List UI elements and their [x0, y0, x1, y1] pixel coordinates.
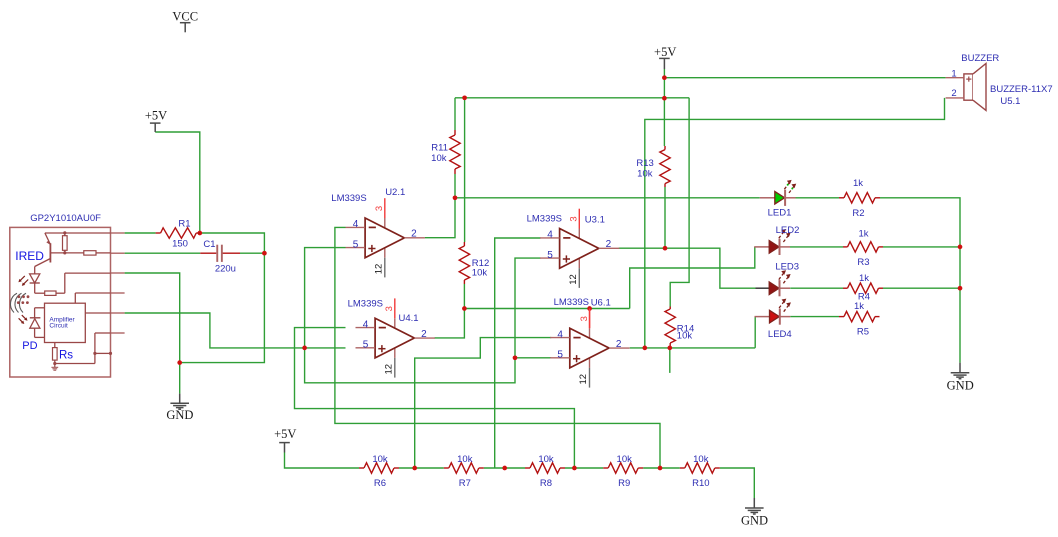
sensor internal: Rs local ground — [54, 364, 56, 368]
resistor R9 10k — [608, 463, 638, 473]
svg-text:10k: 10k — [472, 267, 488, 278]
svg-text:5: 5 — [353, 239, 359, 250]
svg-text:R6: R6 — [374, 478, 386, 489]
svg-text:1k: 1k — [858, 229, 868, 240]
svg-text:GND: GND — [947, 379, 974, 393]
wire LED1 to R2 — [795, 197, 839, 199]
resistor R11 10k — [450, 135, 460, 169]
svg-text:PD: PD — [22, 340, 37, 352]
svg-text:4: 4 — [547, 230, 553, 241]
sensor internal: top wire + emitter node — [45, 232, 111, 234]
resistor R10 10k — [685, 463, 715, 473]
svg-text:LM339S: LM339S — [348, 299, 383, 310]
resistor R1 150 — [161, 228, 197, 238]
op-amp U3.1 (LM339S comparator) — [540, 229, 619, 269]
svg-text:4: 4 — [353, 219, 359, 230]
svg-text:Circuit: Circuit — [49, 322, 68, 329]
wire R12 bottom to node — [463, 284, 465, 309]
power symbol +5V (bottom) — [279, 442, 290, 444]
wire C1 node down to gnd node — [180, 253, 265, 362]
svg-text:12: 12 — [383, 364, 394, 375]
wire sensor pin1 to R1 — [125, 232, 156, 234]
sensor internal: pin5 wire from amplifier — [85, 312, 110, 314]
wire sensor pin3 to GND — [125, 273, 180, 394]
svg-text:3: 3 — [579, 316, 590, 321]
svg-text:10k: 10k — [693, 454, 709, 465]
svg-text:LED1: LED1 — [768, 208, 792, 219]
sensor internal: base wire + resistor to pin2 — [50, 252, 83, 254]
wire R1 to C1 top node — [200, 233, 265, 253]
svg-text:R2: R2 — [852, 208, 864, 219]
sensor internal: Rs resistor — [54, 343, 56, 348]
svg-text:3: 3 — [374, 206, 385, 211]
svg-text:VCC: VCC — [172, 9, 198, 23]
wire sensor pin2 to C1 — [125, 252, 201, 254]
svg-text:1k: 1k — [853, 178, 863, 189]
buzzer pin 2 stub — [946, 97, 964, 99]
wire U3.1 output to R13 node — [619, 247, 665, 249]
sensor internal: pin4 wire to amplifier — [75, 292, 110, 294]
wire R10 to GND — [720, 468, 755, 498]
sensor internal: transistor — [49, 243, 51, 262]
pin 12 stub of U2.1 — [384, 258, 386, 278]
svg-text:LED2: LED2 — [776, 225, 800, 236]
wire R6-R7 link — [399, 467, 444, 469]
sensor internal: PD arrows — [22, 315, 26, 319]
svg-text:10k: 10k — [372, 454, 388, 465]
svg-text:U6.1: U6.1 — [591, 297, 611, 308]
wire stub below R14 node — [669, 348, 671, 373]
svg-text:U2.1: U2.1 — [385, 187, 405, 198]
svg-text:LM339S: LM339S — [331, 193, 366, 204]
svg-text:2: 2 — [421, 329, 427, 340]
wire R11 upper lead — [454, 98, 456, 130]
buzzer U5.1 BUZZER-11X7 — [964, 64, 986, 111]
svg-text:2: 2 — [411, 229, 417, 240]
svg-text:12: 12 — [578, 374, 589, 385]
svg-text:BUZZER: BUZZER — [961, 53, 999, 64]
wire R11 lower lead — [454, 174, 456, 198]
sensor internal: IRED diode — [34, 267, 36, 274]
LED LED3 — [756, 271, 791, 297]
svg-text:LM339S: LM339S — [554, 297, 589, 308]
wire R7/R8 tap to U3.1 pin4 — [495, 238, 541, 468]
svg-text:+5V: +5V — [145, 109, 167, 123]
svg-text:R13: R13 — [636, 158, 653, 169]
sensor internal: amplifier circuit box — [45, 303, 86, 342]
svg-text:10k: 10k — [457, 454, 473, 465]
resistor R7 10k — [449, 463, 479, 473]
LED LED2 — [754, 230, 790, 256]
pin 12 stub of U3.1 — [578, 268, 580, 288]
svg-text:U3.1: U3.1 — [585, 214, 605, 225]
svg-text:2: 2 — [616, 339, 622, 350]
pin 12 stub of U6.1 — [589, 368, 591, 388]
pin 3 stub of U3.1 — [578, 209, 580, 229]
svg-text:1: 1 — [951, 68, 956, 79]
wire R14 bottom lead — [669, 346, 671, 348]
resistor R14 10k — [665, 309, 675, 343]
wire +5V rail to buzzer pin1 — [664, 77, 945, 79]
svg-text:+5V: +5V — [274, 427, 296, 441]
ground GND (left) — [179, 394, 181, 404]
wire R2 to right rail — [880, 198, 960, 363]
wire Vo branch to U2.1 pin5 — [305, 248, 346, 348]
resistor R13 10k — [660, 150, 670, 184]
sensor internal: pin6 wire down — [95, 332, 111, 334]
op-amp U2.1 (LM339S comparator) — [346, 218, 425, 258]
svg-text:3: 3 — [384, 306, 395, 311]
svg-text:10k: 10k — [538, 454, 554, 465]
svg-text:GND: GND — [741, 513, 768, 527]
wire U6.1 out to LED4 — [754, 317, 756, 348]
wire LED2 to R3 — [790, 246, 843, 248]
pin 3 stub of U6.1 — [589, 308, 591, 328]
pin 3 stub of U2.1 — [384, 198, 386, 218]
svg-text:LED4: LED4 — [768, 329, 792, 340]
svg-text:R3: R3 — [857, 257, 869, 268]
svg-text:1k: 1k — [859, 273, 869, 284]
power symbol +5V (center) — [659, 57, 670, 59]
wire U2.1 pin4 to R9/R10 tap — [335, 227, 660, 468]
wire R8-R9 link — [565, 467, 603, 469]
wire C1 right to junction — [240, 252, 264, 254]
wire R6/R7 tap to U6.1 pin4 — [415, 338, 552, 468]
op-amp U6.1 (LM339S comparator) — [550, 328, 629, 368]
wire R7-R8 link — [484, 467, 525, 469]
wire R4 to right rail — [883, 287, 960, 289]
resistor R3 1k — [848, 242, 879, 252]
svg-text:R5: R5 — [857, 327, 869, 338]
pin 3 net of U6.1 to U4.1 output node — [589, 309, 591, 329]
wire U3.1 out node to LED3 — [665, 248, 756, 288]
LED LED4 — [755, 299, 791, 325]
svg-text:5: 5 — [557, 350, 563, 361]
svg-text:3: 3 — [569, 216, 580, 221]
svg-text:R8: R8 — [540, 478, 552, 489]
LED LED1 — [760, 180, 796, 206]
svg-text:U4.1: U4.1 — [399, 313, 419, 324]
wire +5V stem center — [663, 69, 665, 146]
sensor internal: light arcs — [10, 293, 29, 312]
wire +5V to ladder — [285, 453, 360, 469]
wire Vo branch down-right — [305, 258, 541, 383]
svg-text:LM339S: LM339S — [527, 214, 562, 225]
svg-text:10k: 10k — [617, 454, 633, 465]
sensor GP2Y1010AU0F box — [10, 227, 111, 377]
wire sensor Vo pin5 — [125, 313, 346, 348]
resistor R8 10k — [530, 463, 560, 473]
ground GND (right) — [959, 363, 961, 373]
svg-text:2: 2 — [951, 88, 956, 99]
resistor R2 1k — [844, 193, 875, 203]
wire R3 to right rail — [883, 246, 960, 248]
resistor R6 10k — [364, 463, 394, 473]
wire U4.1 out node right — [464, 308, 629, 310]
svg-text:5: 5 — [547, 250, 553, 261]
sensor internal: PD photodiode — [30, 317, 41, 319]
svg-text:R9: R9 — [618, 478, 630, 489]
svg-text:10k: 10k — [637, 169, 653, 180]
capacitor C1 220u — [200, 252, 216, 254]
wire U6.1 output node — [630, 347, 756, 349]
wire R9-R10 link — [643, 467, 680, 469]
svg-text:R7: R7 — [459, 478, 471, 489]
svg-text:LED3: LED3 — [775, 261, 799, 272]
wire +5V to R12 top — [464, 98, 466, 242]
svg-text:GND: GND — [166, 408, 193, 422]
svg-text:4: 4 — [557, 329, 563, 340]
svg-text:1k: 1k — [854, 301, 864, 312]
svg-text:IRED: IRED — [15, 249, 44, 263]
wire buzzer pin2 return — [645, 98, 945, 348]
svg-text:R11: R11 — [431, 142, 448, 153]
wire U2.1 out node to LED1 — [455, 197, 760, 199]
svg-text:BUZZER-11X7: BUZZER-11X7 — [990, 84, 1053, 95]
svg-text:2: 2 — [606, 239, 612, 250]
svg-text:10k: 10k — [431, 153, 447, 164]
wire R13 bottom lead — [664, 187, 666, 248]
sensor internal: bias resistor (vertical) — [63, 236, 68, 251]
wire LED3 to R4 — [790, 287, 843, 289]
resistor R5 1k (open end) — [844, 311, 875, 321]
buzzer pin 1 stub — [946, 77, 964, 79]
wire U4.1 pin4 to R8/R9 tap — [295, 328, 575, 468]
resistor R12 10k — [459, 246, 469, 280]
wire Vo branch to U6.1 pin5 — [515, 357, 551, 359]
wire U2.1 output to R11 node — [425, 198, 455, 238]
wire U4.1 out node to LED2 — [630, 247, 755, 309]
svg-text:12: 12 — [568, 274, 579, 285]
wire +5V drop to R14 — [670, 98, 689, 307]
sensor pin stubs — [111, 233, 125, 333]
pin 3 stub of U4.1 — [394, 298, 396, 318]
op-amp U4.1 (LM339S comparator) — [356, 318, 435, 358]
wire +5V left rail — [155, 132, 200, 233]
svg-text:U5.1: U5.1 — [1000, 96, 1020, 107]
power symbol +5V (left) — [150, 122, 161, 124]
svg-text:150: 150 — [172, 239, 188, 250]
power symbol VCC — [180, 22, 191, 24]
svg-text:R1: R1 — [178, 218, 190, 229]
ground GND (bottom) — [753, 498, 755, 508]
svg-text:10k: 10k — [677, 331, 693, 342]
wire LED4 to R5 — [790, 316, 839, 318]
wire +5V horizontal rail — [455, 97, 689, 99]
svg-text:Rs: Rs — [59, 350, 73, 362]
sensor internal: IRED emission arrows — [20, 276, 25, 281]
pin 12 stub of U4.1 — [394, 358, 396, 378]
svg-text:R10: R10 — [692, 478, 709, 489]
svg-text:220u: 220u — [215, 264, 236, 275]
svg-text:C1: C1 — [203, 239, 215, 250]
resistor R4 1k — [848, 283, 879, 293]
wire U4.1 output up to R12 node — [435, 309, 465, 338]
svg-text:4: 4 — [363, 319, 369, 330]
sensor internal: IRED cathode to pin3 — [34, 283, 36, 293]
svg-text:12: 12 — [373, 264, 384, 275]
svg-text:GP2Y1010AU0F: GP2Y1010AU0F — [30, 213, 101, 224]
svg-text:5: 5 — [363, 340, 369, 351]
svg-text:+5V: +5V — [654, 45, 676, 59]
